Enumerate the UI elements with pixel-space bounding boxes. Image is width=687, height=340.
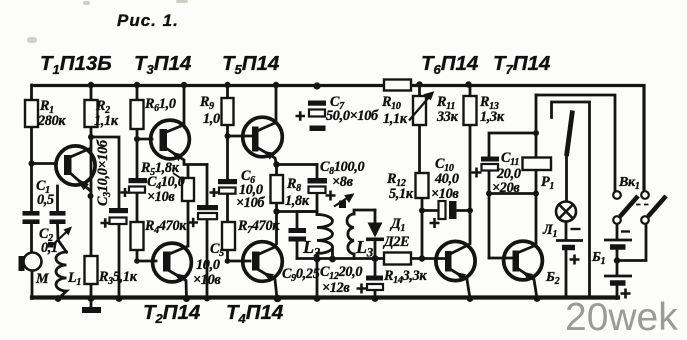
svg-text:R8: R8 [286,176,301,194]
svg-text:1,0: 1,0 [203,111,220,127]
svg-text:×10б: ×10б [236,195,265,211]
svg-text:Т1П13Б: Т1П13Б [40,52,112,77]
svg-text:1,8к: 1,8к [285,193,310,209]
svg-text:R9: R9 [199,94,214,112]
svg-text:C310,0×10б: C310,0×10б [95,139,113,206]
svg-text:×10в: ×10в [147,189,175,205]
svg-text:Т3П14: Т3П14 [134,52,192,77]
svg-text:R7470к: R7470к [237,218,280,236]
svg-text:Т4П14: Т4П14 [226,301,284,326]
svg-text:20wek: 20wek [565,296,678,339]
svg-text:R4470к: R4470к [144,218,187,236]
svg-text:М: М [35,271,50,287]
svg-text:×20в: ×20в [492,180,520,196]
svg-text:1,1к: 1,1к [94,113,119,129]
svg-text:10,0: 10,0 [196,257,220,273]
svg-text:33к: 33к [436,109,459,125]
svg-text:R10: R10 [381,94,401,112]
svg-text:0,1: 0,1 [41,240,58,256]
svg-text:0,5: 0,5 [37,192,54,208]
svg-text:1,3к: 1,3к [480,109,505,125]
svg-text:Т2П14: Т2П14 [143,301,201,326]
svg-text:Р1: Р1 [541,174,554,192]
svg-text:280к: 280к [37,113,66,129]
svg-text:R143,3к: R143,3к [383,268,427,286]
svg-text:Рис. 1.: Рис. 1. [117,11,179,30]
svg-text:×8в: ×8в [332,174,354,190]
svg-text:R35,1к: R35,1к [98,269,138,287]
svg-text:50,0×10б: 50,0×10б [326,108,379,124]
svg-text:Т5П14: Т5П14 [222,52,280,77]
svg-text:1,1к: 1,1к [383,111,408,127]
svg-text:L1: L1 [67,270,81,288]
svg-text:C90,25: C90,25 [282,266,320,284]
svg-text:×12в: ×12в [322,280,350,296]
svg-text:R61,0: R61,0 [144,96,176,114]
svg-text:Т6П14: Т6П14 [421,52,479,77]
svg-text:Б1: Б1 [591,250,605,267]
svg-text:5,1к: 5,1к [389,186,414,202]
svg-text:40,0: 40,0 [434,171,459,187]
svg-text:Л1: Л1 [542,222,557,240]
svg-text:Д1: Д1 [389,216,405,234]
svg-text:Т7П14: Т7П14 [493,52,551,77]
svg-text:Б2: Б2 [545,270,560,287]
svg-text:×10в: ×10в [431,186,459,202]
svg-text:Д2Е: Д2Е [382,234,409,250]
svg-text:×10в: ×10в [193,272,221,288]
svg-text:Вк1: Вк1 [618,175,640,192]
